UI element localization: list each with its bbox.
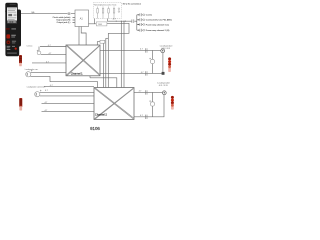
svg-text:N2 = No connection: N2 = No connection bbox=[123, 3, 142, 6]
svg-text:4 Ω / 8 Ω: 4 Ω / 8 Ω bbox=[159, 84, 168, 87]
svg-text:Loudspeaker connection: Loudspeaker connection bbox=[27, 85, 45, 88]
svg-text:Channel 2: Channel 2 bbox=[95, 113, 107, 117]
svg-text:4n7: 4n7 bbox=[113, 19, 116, 21]
svg-text:Cortex: Cortex bbox=[146, 14, 153, 17]
svg-text:Netzteilplatine (siehe Text): Netzteilplatine (siehe Text) bbox=[94, 4, 117, 7]
svg-text:Loudspeaker con.: Loudspeaker con. bbox=[25, 68, 39, 71]
svg-text:Cortex (CD3, CD, FM, AM1): Cortex (CD3, CD, FM, AM1) bbox=[146, 19, 172, 22]
svg-text:4 Ω / 8 Ω: 4 Ω / 8 Ω bbox=[161, 47, 170, 50]
svg-text:9106: 9106 bbox=[90, 126, 100, 131]
svg-text:Power amp channel 1 (L): Power amp channel 1 (L) bbox=[146, 23, 170, 26]
svg-text:C1 10u: C1 10u bbox=[27, 45, 33, 47]
svg-text:Power amp channel 1 (R): Power amp channel 1 (R) bbox=[146, 29, 170, 32]
svg-text:Output jack (L): Output jack (L) bbox=[57, 21, 71, 24]
svg-text:Channel 1: Channel 1 bbox=[71, 72, 83, 76]
